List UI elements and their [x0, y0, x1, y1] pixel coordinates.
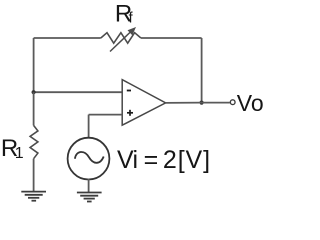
wire: top horizontal right segment from Rf to right corner	[141, 37, 202, 39]
ground under R1	[21, 192, 46, 201]
label Vi = 2[V]	[117, 146, 211, 174]
wire: R1 bottom lead to ground	[33, 159, 35, 192]
label R1	[1, 135, 24, 162]
node: junction dot at inverting input branch	[31, 90, 35, 94]
wire: left vertical from top-left corner down to inverting-input junction	[33, 38, 35, 92]
wire: non-inverting input horizontal	[89, 114, 123, 116]
svg-text:f: f	[129, 11, 134, 27]
wire: vertical from non-inverting input down to source top	[88, 115, 90, 139]
wire: R1 top lead from junction down to zigzag	[33, 92, 35, 125]
op-amp U1 triangle	[122, 80, 165, 126]
node: junction dot at feedback/output	[200, 101, 204, 105]
resistor R1 (zigzag)	[30, 125, 38, 158]
wire: source bottom lead to ground	[88, 179, 90, 192]
sine symbol inside source	[75, 152, 104, 163]
wire: right vertical feedback wire down to output node	[201, 38, 203, 103]
op-amp minus pin mark	[127, 90, 131, 92]
resistor Rf (variable, zigzag)	[101, 33, 141, 44]
wire: op-amp output horizontal to terminal	[166, 102, 230, 104]
wire: inverting input horizontal	[34, 91, 123, 93]
svg-text:Vo: Vo	[237, 90, 264, 116]
svg-text:2[V]: 2[V]	[163, 146, 211, 174]
svg-text:Vi =: Vi =	[117, 146, 158, 174]
ground under source	[77, 193, 102, 202]
wire: top horizontal left segment from corner to Rf	[34, 37, 101, 39]
node: open output terminal circle	[230, 100, 235, 105]
svg-text:1: 1	[15, 145, 24, 162]
label Rf	[115, 0, 134, 27]
op-amp plus pin mark	[127, 110, 133, 116]
source Vi circle (AC source)	[68, 138, 110, 180]
arrow through Rf (variable-resistor arrow)	[110, 27, 136, 52]
